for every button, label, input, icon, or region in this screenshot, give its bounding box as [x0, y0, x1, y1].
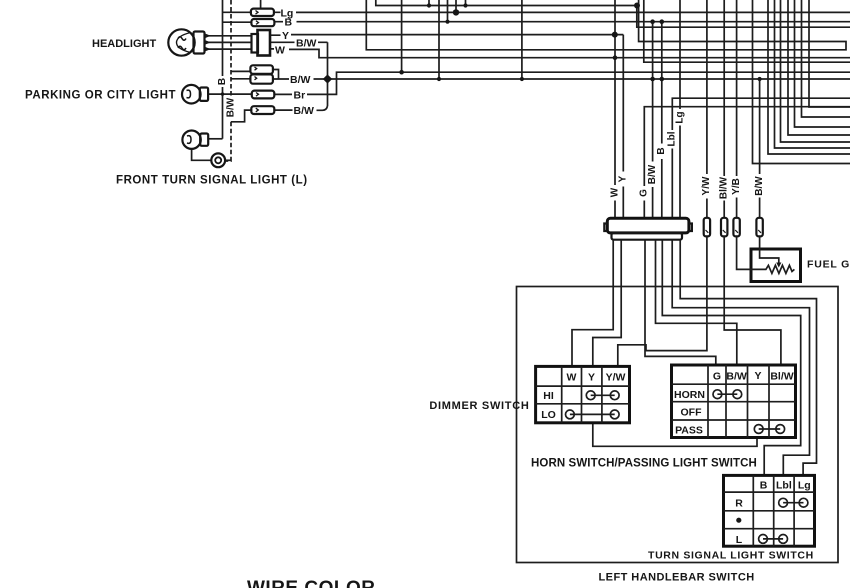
svg-text:Lg: Lg	[798, 480, 811, 492]
svg-text:Y: Y	[754, 370, 761, 382]
svg-text:Lg: Lg	[674, 111, 685, 123]
svg-text:HEADLIGHT: HEADLIGHT	[92, 38, 156, 50]
svg-text:Y/W: Y/W	[701, 176, 712, 195]
svg-text:Y: Y	[588, 372, 595, 384]
svg-text:DIMMER SWITCH: DIMMER SWITCH	[429, 400, 529, 412]
svg-text:W: W	[609, 187, 620, 197]
svg-text:PARKING OR CITY LIGHT: PARKING OR CITY LIGHT	[25, 90, 176, 102]
svg-text:PASS: PASS	[675, 425, 703, 437]
svg-text:B/W: B/W	[647, 164, 658, 184]
svg-text:Lbl: Lbl	[667, 131, 678, 146]
svg-text:Y: Y	[618, 175, 629, 182]
svg-text:B: B	[285, 17, 293, 29]
svg-text:FRONT TURN SIGNAL LIGHT (L): FRONT TURN SIGNAL LIGHT (L)	[116, 175, 308, 187]
svg-text:B/W: B/W	[296, 37, 317, 49]
svg-text:Y: Y	[282, 30, 289, 42]
svg-text:LEFT HANDLEBAR SWITCH: LEFT HANDLEBAR SWITCH	[599, 572, 755, 584]
svg-text:Br: Br	[294, 89, 306, 101]
svg-text:HORN: HORN	[674, 389, 705, 401]
svg-text:Lbl: Lbl	[776, 480, 792, 492]
svg-text:Bl/W: Bl/W	[770, 371, 793, 383]
svg-text:B/W: B/W	[294, 105, 315, 117]
svg-text:B: B	[217, 78, 228, 85]
svg-text:WIRE COLOR: WIRE COLOR	[247, 578, 376, 588]
svg-text:R: R	[735, 498, 743, 510]
svg-text:B/W: B/W	[225, 97, 236, 117]
svg-text:TURN SIGNAL LIGHT SWITCH: TURN SIGNAL LIGHT SWITCH	[648, 550, 814, 562]
svg-text:B: B	[656, 147, 667, 154]
svg-text:Y/W: Y/W	[606, 372, 626, 384]
svg-text:W: W	[275, 44, 285, 56]
svg-text:W: W	[567, 372, 577, 384]
svg-text:HORN SWITCH/PASSING LIGHT SWIT: HORN SWITCH/PASSING LIGHT SWITCH	[531, 458, 757, 470]
svg-text:Bl/W: Bl/W	[719, 176, 730, 199]
svg-text:HI: HI	[543, 390, 554, 402]
svg-text:Y/B: Y/B	[731, 178, 742, 195]
svg-text:B: B	[760, 480, 768, 492]
svg-text:B/W: B/W	[726, 371, 747, 383]
svg-text:OFF: OFF	[681, 407, 703, 419]
svg-text:LO: LO	[541, 409, 556, 421]
svg-text:B/W: B/W	[754, 176, 765, 196]
svg-text:FUEL GAUGE: FUEL GAUGE	[807, 259, 850, 271]
svg-text:L: L	[736, 534, 743, 546]
svg-text:G: G	[639, 189, 650, 197]
svg-text:G: G	[713, 371, 721, 383]
svg-text:B/W: B/W	[290, 74, 311, 86]
